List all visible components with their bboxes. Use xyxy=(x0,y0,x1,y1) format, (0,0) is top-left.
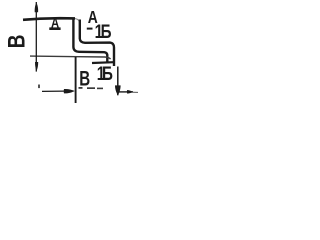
arrow down on extension xyxy=(115,85,121,95)
bottom dim line left xyxy=(42,90,64,92)
wall inner line xyxy=(80,20,114,67)
arrow bottom xyxy=(35,62,38,71)
arrow right-pointing xyxy=(64,89,75,93)
extension line y56 xyxy=(30,56,111,59)
end blob xyxy=(127,90,133,94)
wall outer line xyxy=(73,20,107,64)
bottom dim line right xyxy=(119,91,133,93)
svg-text:В: В xyxy=(2,34,30,48)
svg-text:В: В xyxy=(79,66,90,90)
svg-text:Б: Б xyxy=(101,21,112,43)
wall bottom edge xyxy=(92,61,114,64)
underline A xyxy=(49,27,60,30)
svg-text:Б: Б xyxy=(102,63,113,85)
faint tail xyxy=(133,91,138,93)
dim line B vertical xyxy=(35,2,37,72)
bottom right extension xyxy=(117,67,119,96)
minus xyxy=(87,28,93,30)
top flange line xyxy=(23,18,75,20)
corner arc xyxy=(75,19,80,24)
bottom left extension xyxy=(75,57,77,103)
arrow top xyxy=(35,3,38,12)
dashed underline xyxy=(79,87,83,89)
tiny tick xyxy=(38,85,40,89)
